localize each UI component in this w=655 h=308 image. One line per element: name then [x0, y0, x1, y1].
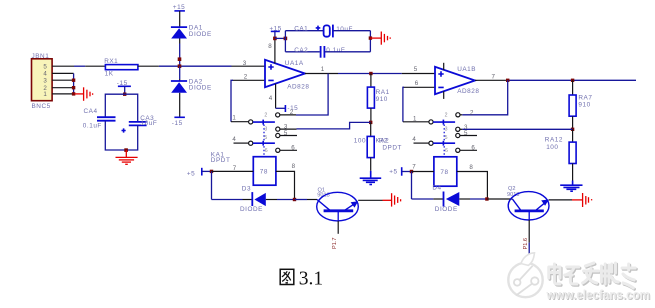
op-amp U A1B pin 8 stub: [443, 63, 445, 70]
junction D3 Q1: [293, 198, 296, 201]
wire cap loop left: [284, 31, 286, 52]
connector JBN1 BNC5: [32, 53, 53, 110]
ground (red, Q1): [383, 193, 401, 206]
svg-text:1: 1: [43, 91, 47, 98]
capacitor CA3: [122, 115, 158, 133]
svg-text:100: 100: [354, 137, 366, 144]
svg-text:DPDT: DPDT: [211, 157, 231, 164]
svg-text:+5: +5: [187, 170, 195, 177]
svg-text:DIODE: DIODE: [435, 206, 458, 213]
svg-text:100: 100: [546, 144, 558, 151]
relay KA2 pin 1: [403, 115, 433, 124]
wire CA top rail: [105, 94, 137, 121]
op-amp U A1A pin 1 output: [305, 66, 338, 73]
watermark logo: [508, 253, 542, 297]
wire pin2 loop: [231, 80, 233, 121]
relay KA1 label: [211, 151, 231, 164]
wire node to relay1 pin3: [297, 122, 371, 128]
capacitor CA4: [83, 108, 116, 130]
relay KA2 pin 4: [412, 136, 433, 145]
wire output right: [506, 79, 636, 81]
diode D3: [240, 185, 266, 213]
ground (red, cap loop): [370, 32, 390, 45]
relay KA1 pin 1: [231, 115, 253, 124]
svg-text:R2: R2: [379, 137, 388, 144]
svg-text:BNC5: BNC5: [32, 103, 51, 110]
resistor RX1 right stub: [138, 65, 159, 67]
svg-text:3: 3: [43, 78, 47, 85]
svg-text:UA1B: UA1B: [457, 66, 476, 73]
op-amp U A1A pin 2 stub: [232, 74, 265, 81]
wire output to U A1B pin5: [338, 73, 402, 75]
svg-text:2: 2: [244, 74, 248, 81]
junction DA upper: [178, 57, 182, 61]
svg-text:10uF: 10uF: [336, 26, 353, 33]
op-amp U A1A: [265, 60, 309, 91]
diode DA2: [171, 78, 212, 93]
svg-text:5: 5: [464, 130, 468, 137]
op-amp U A1B pin 6 stub: [403, 80, 435, 87]
svg-text:CA2: CA2: [294, 47, 308, 54]
transistor Q1 9013: [317, 187, 359, 221]
relay KA2 pin 2: [445, 109, 474, 118]
svg-text:4: 4: [269, 95, 273, 102]
relay KA2 pin 8: [457, 164, 488, 199]
svg-text:CA4: CA4: [84, 108, 98, 115]
wire feedback U A1A: [296, 74, 328, 116]
wire D4 to junction: [459, 198, 470, 200]
svg-text:5: 5: [445, 135, 448, 141]
wire Q1 base down: [337, 211, 339, 234]
wire CA bottom rail: [105, 121, 137, 150]
svg-text:RA7: RA7: [578, 94, 592, 101]
svg-text:D4: D4: [432, 185, 441, 192]
relay KA1 pin 7: [212, 165, 254, 172]
relay KA1 armature B: [253, 141, 275, 146]
power -15 (CA block): [117, 80, 131, 94]
wire cap loop right: [369, 31, 371, 52]
svg-text:8: 8: [268, 43, 272, 50]
wire Q2 base down: [528, 211, 530, 255]
wire Q1 emitter to ground: [358, 199, 382, 201]
ground (red, Q2): [572, 193, 592, 207]
relay KA2 coil: [434, 157, 457, 186]
junction +5 KA1: [210, 170, 213, 173]
svg-text:0.1uF: 0.1uF: [83, 123, 102, 130]
junction output feedback: [506, 79, 509, 82]
svg-text:AD828: AD828: [287, 83, 309, 90]
junction RA1 bottom: [369, 121, 372, 124]
svg-text:www.elecfans.com: www.elecfans.com: [546, 287, 650, 302]
svg-text:5: 5: [414, 66, 418, 73]
wire +15 to cap loop: [275, 37, 286, 39]
wire CA2 branch left: [285, 51, 319, 53]
relay KA1 pin 6: [265, 144, 297, 154]
op-amp U A1B: [435, 66, 479, 95]
junction D4 Q2: [485, 197, 488, 200]
svg-text:2: 2: [470, 109, 474, 116]
connector pin 4 stub: [52, 72, 74, 74]
svg-text:78: 78: [260, 169, 268, 176]
svg-text:AD828: AD828: [457, 88, 479, 95]
svg-text:3.1: 3.1: [299, 269, 323, 290]
wire junction to Q2 base: [487, 198, 512, 200]
svg-text:DIODE: DIODE: [189, 85, 212, 92]
svg-text:CA1: CA1: [294, 26, 308, 33]
svg-text:DIODE: DIODE: [189, 31, 212, 38]
power +5 (KA2): [389, 167, 411, 176]
op-amp U A1B pin 7 output: [475, 73, 506, 80]
svg-text:6: 6: [415, 80, 419, 87]
relay KA1 pin 8: [276, 163, 296, 200]
wire node to relay2 pin3: [462, 128, 572, 130]
junction bus pin1: [72, 92, 75, 95]
svg-text:7: 7: [492, 73, 496, 80]
junction +15 stem: [273, 37, 277, 41]
op-amp U A1B pin 4 stub: [443, 91, 445, 99]
wire Q2 emitter to ground: [549, 199, 572, 201]
svg-text:Q2: Q2: [508, 186, 515, 192]
svg-text:5: 5: [264, 135, 267, 141]
op-amp U A1A pin 3 stub: [232, 60, 266, 67]
svg-text:8: 8: [469, 164, 473, 171]
junction cap loop right: [369, 36, 372, 39]
svg-text:8: 8: [292, 163, 296, 170]
resistor RA7: [569, 80, 592, 129]
junction output RA1: [369, 72, 372, 75]
svg-text:D3: D3: [242, 185, 251, 192]
svg-text:-15: -15: [172, 120, 183, 127]
wire RX1 to opamp node: [159, 65, 232, 67]
wire feedback to relay2 pin2: [462, 80, 507, 115]
svg-text:1: 1: [321, 66, 325, 73]
connector pin 5 stub: [52, 65, 74, 67]
svg-text:1K: 1K: [105, 70, 114, 77]
svg-text:2: 2: [264, 112, 267, 118]
svg-text:6: 6: [265, 148, 268, 154]
junction DA on signal: [178, 64, 182, 68]
svg-text:7: 7: [412, 163, 416, 170]
svg-text:RA1: RA1: [376, 89, 390, 96]
svg-text:+5: +5: [389, 169, 397, 176]
wire +5 down to D4: [411, 172, 413, 200]
relay KA1 dashed link: [263, 125, 265, 157]
relay KA1 coil: [253, 157, 276, 186]
ground (blue, RA12): [560, 181, 582, 192]
resistor RX1 left stub: [85, 65, 105, 67]
wire ground bus: [73, 73, 75, 94]
wire +5 down to D3: [211, 171, 213, 199]
resistor RX1: [104, 58, 138, 77]
ground (blue, RA2): [360, 171, 382, 185]
watermark url: [546, 287, 651, 303]
junction cap loop left: [284, 37, 288, 41]
op-amp U A1B pin 5 stub: [402, 66, 435, 74]
connector pin 2 stub: [52, 87, 74, 89]
wire DA1 to node: [179, 39, 181, 44]
junction RA7 bottom: [571, 128, 574, 131]
relay KA1 pin 5: [264, 130, 297, 141]
svg-text:+15: +15: [173, 4, 186, 11]
svg-text:DPDT: DPDT: [382, 144, 402, 151]
svg-text:2: 2: [445, 112, 448, 118]
transistor Q2 9013: [507, 186, 549, 220]
wire D3 to junction: [266, 199, 277, 201]
svg-text:0.1uF: 0.1uF: [326, 47, 345, 54]
svg-text:78: 78: [440, 169, 448, 176]
relay KA2 pin 7: [412, 163, 434, 171]
relay KA2 pin 3: [445, 124, 468, 133]
svg-text:RA12: RA12: [545, 137, 563, 144]
op-amp U A1A pin 4 stub: [269, 84, 286, 109]
op-amp U A1A pin 8 stub: [268, 38, 275, 63]
power +15 (decoupling): [269, 25, 282, 38]
svg-text:P1.7: P1.7: [332, 237, 338, 249]
capacitor CA1: [294, 25, 353, 38]
svg-text:4: 4: [232, 136, 236, 143]
junction output RA7: [571, 79, 574, 82]
svg-text:10uF: 10uF: [141, 120, 158, 127]
svg-text:910: 910: [376, 96, 388, 103]
svg-text:910: 910: [578, 102, 590, 109]
wire to D4 anode: [412, 198, 434, 200]
wire node to DA2: [179, 66, 181, 79]
wire CA1 branch left: [285, 30, 323, 32]
relay KA1 armature A: [253, 120, 275, 125]
watermark text elecfans: [549, 263, 637, 289]
relay KA2 armature B: [433, 141, 455, 146]
wire CA1 branch right: [333, 30, 370, 32]
svg-text:P1.6: P1.6: [523, 238, 529, 250]
power +15 (diode clamp): [173, 4, 186, 27]
wire feedback U A1B: [403, 87, 404, 122]
svg-text:UA1A: UA1A: [285, 60, 304, 67]
resistor RA2: [354, 122, 389, 170]
relay KA1 pin 3: [264, 124, 296, 133]
relay KA2 pin 5: [445, 130, 477, 141]
connector pin 1 stub: [52, 93, 74, 95]
junction CA top: [123, 93, 126, 96]
wire DA2 to -15: [179, 93, 181, 118]
svg-text:4: 4: [412, 136, 416, 143]
svg-text:5: 5: [43, 63, 47, 70]
relay KA2 pin 6: [445, 144, 477, 154]
wire to D3 anode: [212, 199, 243, 201]
junction +5 KA2: [410, 170, 413, 173]
relay KA1 pin 4: [232, 136, 252, 145]
relay KA2 armature A: [433, 120, 455, 125]
svg-text:DIODE: DIODE: [240, 206, 263, 213]
ground (red, CA block): [116, 150, 138, 164]
svg-text:6: 6: [445, 148, 448, 154]
svg-text:5: 5: [284, 130, 288, 137]
relay KA2 dashed link: [443, 125, 445, 157]
diode DA1: [171, 25, 212, 39]
power -15 (U A1A pin4): [285, 105, 298, 112]
svg-text:3: 3: [445, 127, 448, 133]
ground (red, input bus): [75, 87, 93, 101]
relay KA1 pin 2: [264, 109, 296, 118]
caption figure 3.1: [280, 269, 323, 290]
power -15 (below DA2): [172, 117, 185, 127]
wire junction to Q1 base: [295, 199, 308, 201]
capacitor CA2: [294, 46, 345, 58]
svg-text:1: 1: [232, 115, 236, 122]
resistor RA1: [367, 74, 389, 123]
svg-text:3: 3: [264, 127, 267, 133]
wire pin5 to RX1: [74, 65, 85, 67]
resistor RA12: [545, 129, 576, 180]
junction bus pin2: [72, 86, 75, 89]
junction bus pin3: [72, 79, 75, 82]
connector pin 3 stub: [52, 79, 74, 81]
wire CA2 branch right: [325, 51, 371, 53]
diode D4: [432, 185, 459, 213]
junction CA bottom: [124, 148, 128, 152]
power +5 (KA1): [187, 168, 212, 178]
